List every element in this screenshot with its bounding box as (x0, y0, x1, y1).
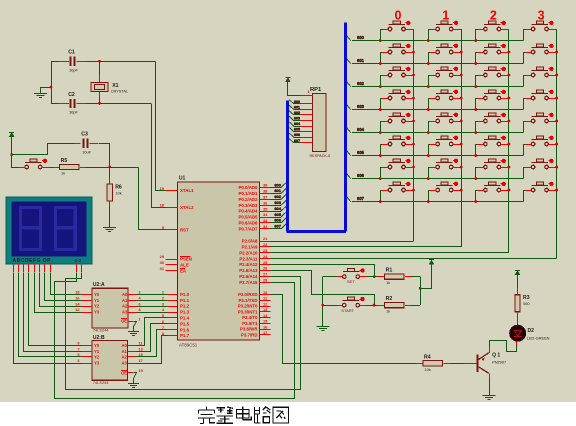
wire button col2 row3 drop (475, 98, 477, 110)
svg-text:U2:A: U2:A (93, 282, 105, 288)
svg-text:RST: RST (180, 228, 189, 233)
keypad button col2 row4 (484, 116, 501, 118)
U1 pin XTAL2 (166, 207, 178, 209)
svg-text:P0.6/AD6: P0.6/AD6 (238, 221, 258, 226)
svg-text:30: 30 (160, 260, 164, 265)
svg-text:607: 607 (357, 196, 365, 201)
crystal X1 (99, 61, 101, 75)
wire SET left (323, 276, 337, 278)
svg-text:P2.0/A8: P2.0/A8 (242, 239, 258, 244)
svg-text:7: 7 (77, 347, 79, 351)
svg-text:A1: A1 (122, 349, 128, 354)
node keypad row1 col0 junction (379, 62, 382, 65)
svg-text:10k: 10k (116, 191, 122, 195)
U1 pin P3.7 (260, 334, 271, 336)
display pins (13, 264, 15, 272)
svg-text:EA: EA (180, 268, 187, 273)
RP1 pin 2 net 600 (300, 103, 312, 105)
U1 pin P0.5 (260, 217, 271, 219)
U1 pin P0.3 (260, 205, 271, 207)
node ground junction (50, 86, 53, 89)
svg-text:601: 601 (294, 105, 300, 109)
node keypad row3 col0 junction (379, 108, 382, 111)
wire keypad column 3 line (556, 29, 558, 259)
U1 pin P1.3 (167, 312, 178, 314)
node keypad column 2 row4 junction (508, 120, 511, 123)
wire R4 to Q1 base (451, 363, 464, 365)
wire button col2 row0 drop (475, 29, 477, 41)
keypad button col2 row0 (484, 24, 501, 26)
U1 pin P2.0 (260, 241, 271, 243)
button START (343, 300, 360, 302)
wire P0.4 to bus, net 604 (271, 211, 282, 213)
svg-text:P0.7/AD7: P0.7/AD7 (238, 226, 258, 231)
svg-text:A0: A0 (122, 292, 128, 297)
keypad button col1 row1 (436, 47, 453, 49)
node keypad column 3 row3 junction (555, 97, 558, 100)
svg-text:603: 603 (274, 200, 281, 205)
svg-text:A2: A2 (122, 304, 128, 309)
resistor R1 (378, 276, 385, 278)
U1 pin P3.0 (260, 294, 271, 296)
svg-text:Y1: Y1 (94, 298, 100, 303)
U1 pin P2.6 (260, 276, 271, 278)
svg-text:P2.2/A10: P2.2/A10 (239, 250, 258, 255)
wire keypad row 0 (352, 40, 524, 42)
resistor pack RP1 (313, 94, 326, 152)
U1 pin P2.2 (260, 252, 271, 254)
U1 pin P1.6 (167, 329, 178, 331)
keypad button col0 row7 (389, 185, 406, 187)
buffer U2:B (92, 340, 128, 380)
svg-text:600: 600 (274, 182, 281, 187)
bus entry keypad row 5 net 605 (347, 151, 351, 156)
svg-text:607: 607 (274, 224, 281, 229)
wire R5 to RST net (86, 167, 139, 169)
power flag VCC LED (517, 273, 519, 278)
U1 pin P1.5 (167, 323, 178, 325)
wire ground stub (40, 87, 51, 89)
U1 pin P0.2 (260, 199, 271, 201)
wire button col1 row2 drop (428, 75, 430, 87)
U2:A pin Y1 (82, 300, 93, 302)
keypad button col0 row2 (389, 70, 406, 72)
svg-text:P0.3/AD3: P0.3/AD3 (238, 203, 258, 208)
U1 pin XTAL1 (166, 190, 178, 192)
wire SET junction to R1 (366, 276, 377, 278)
node keypad column 2 row7 junction (508, 189, 511, 192)
svg-text:A0: A0 (122, 343, 128, 348)
display digit 2 segments (55, 208, 75, 228)
U1 pin P1.2 (167, 306, 178, 308)
U1 pin RST (166, 229, 178, 231)
U1 pin P0.0 (260, 187, 271, 189)
node R5/R6/C3 junction (108, 165, 111, 168)
svg-text:R2: R2 (386, 296, 393, 302)
node keypad row2 col1 junction (427, 85, 430, 88)
U1 pin P1.4 (167, 317, 178, 319)
ground U2:A OE (133, 327, 135, 332)
node keypad row1 col2 junction (474, 62, 477, 65)
wire button col0 row3 drop (380, 98, 382, 110)
svg-text:PN2907: PN2907 (492, 359, 506, 364)
U1 pin P2.5 (260, 270, 271, 272)
wire display segment D to U2A (35, 273, 82, 313)
svg-text:X1: X1 (112, 83, 118, 89)
wire keypad column 0 line (413, 29, 415, 241)
svg-text:604: 604 (357, 127, 365, 132)
node VCC branch (10, 153, 13, 156)
svg-text:ALE: ALE (180, 263, 189, 268)
keypad button col3 row2 (532, 70, 549, 72)
svg-text:3: 3 (77, 359, 79, 363)
svg-text:C2: C2 (68, 92, 75, 98)
svg-text:P1.5: P1.5 (180, 321, 190, 326)
wire display segment A to U2A (51, 273, 82, 295)
U2:A pin Y3 (82, 312, 93, 314)
power flag VCC reset (11, 135, 13, 140)
wire button col1 row0 drop (428, 29, 430, 41)
svg-text:17: 17 (139, 359, 143, 363)
node keypad column 1 row1 junction (460, 51, 463, 54)
svg-text:OE: OE (121, 319, 127, 324)
wire RST to U1 (139, 168, 168, 230)
wire button col1 row7 drop (428, 190, 430, 202)
svg-text:P2.4/A12: P2.4/A12 (239, 262, 258, 267)
svg-text:606: 606 (274, 218, 281, 223)
U1 pin P0.6 (260, 222, 271, 224)
node keypad column 1 row5 junction (460, 143, 463, 146)
wire C3 right to node (90, 143, 98, 145)
wire display digit2 select to P2.6 (66, 273, 301, 390)
wire button col2 row2 drop (475, 75, 477, 87)
node keypad column 3 row7 junction (555, 189, 558, 192)
svg-text:P2.6/A14: P2.6/A14 (239, 274, 258, 279)
reset button (19, 167, 25, 169)
node keypad column 2 row6 junction (508, 166, 511, 169)
svg-text:6: 6 (139, 302, 141, 306)
bus entry keypad row 7 net 607 (347, 197, 351, 202)
svg-text:P2.7/A15: P2.7/A15 (239, 280, 258, 285)
svg-text:Y2: Y2 (94, 304, 100, 309)
svg-text:74LS244: 74LS244 (93, 328, 109, 333)
U1 pin P1.7 (167, 335, 178, 337)
U1 pin P2.1 (260, 246, 271, 248)
svg-text:607: 607 (294, 139, 300, 143)
svg-text:605: 605 (357, 150, 365, 155)
node crystal-bottom junction (98, 102, 101, 105)
svg-text:Y0: Y0 (94, 343, 100, 348)
svg-text:Y0: Y0 (94, 292, 100, 297)
wire Q1 collector to ground (489, 379, 491, 390)
svg-text:P3.0/RXD: P3.0/RXD (238, 292, 258, 297)
svg-text:10k: 10k (425, 368, 431, 372)
wire U2:B Y0 to P1.4 (137, 318, 168, 346)
U1 pin P3.1 (260, 300, 271, 302)
wire display segment G to U2B (19, 273, 82, 357)
svg-text:606: 606 (357, 173, 365, 178)
resistor R5 (54, 167, 60, 169)
node crystal-top junction (98, 60, 101, 63)
node keypad column 3 row5 junction (555, 143, 558, 146)
wire U2:B Y2 to P1.6 (137, 330, 168, 357)
node keypad column 1 row3 junction (460, 97, 463, 100)
svg-text:11: 11 (139, 342, 143, 346)
node keypad row6 col1 junction (427, 177, 430, 180)
wire button col3 row1 drop (523, 52, 525, 64)
keypad button col0 row4 (389, 116, 406, 118)
microcontroller U1 AT89C51 (178, 182, 260, 340)
keypad button col2 row6 (484, 162, 501, 164)
wire button col1 row3 drop (428, 98, 430, 110)
U1 pin P3.5 (260, 323, 271, 325)
LED D2 (516, 341, 518, 346)
svg-text:P2.5/A13: P2.5/A13 (239, 268, 258, 273)
keypad button col3 row3 (532, 93, 549, 95)
node keypad column 1 row4 junction (460, 120, 463, 123)
svg-text:P3.5/T1: P3.5/T1 (242, 321, 258, 326)
svg-text:XTAL1: XTAL1 (180, 188, 194, 193)
keypad button col1 row6 (436, 162, 453, 164)
wire button col2 row7 drop (475, 190, 477, 202)
svg-text:P3.2/INT0: P3.2/INT0 (238, 304, 258, 309)
wire P2.1 to keypad column 1 (271, 246, 462, 248)
display digit 1 segments (21, 208, 41, 228)
RP1 pin 4 net 602 (300, 114, 312, 116)
wire button col3 row6 drop (523, 167, 525, 179)
wire U2:B Y3 to P1.7 (137, 336, 168, 364)
wire P0.1 to bus, net 601 (271, 193, 282, 195)
wire button col0 row7 drop (380, 190, 382, 202)
U1 pin P2.4 (260, 264, 271, 266)
svg-text:560: 560 (523, 302, 529, 306)
wire P0.2 to bus, net 602 (271, 199, 282, 201)
node keypad column 0 row2 junction (412, 74, 415, 77)
svg-text:602: 602 (274, 194, 281, 199)
button SET (343, 271, 360, 273)
svg-text:600: 600 (294, 100, 300, 104)
resistor R4 (416, 363, 423, 365)
wire button col3 row3 drop (523, 98, 525, 110)
wire P2.3 to keypad column 3 (271, 258, 557, 260)
svg-text:604: 604 (274, 206, 281, 211)
svg-text:P3.6/WR: P3.6/WR (240, 327, 258, 332)
node keypad column 1 row2 junction (460, 74, 463, 77)
keypad button col2 row5 (484, 139, 501, 141)
wire keypad row 1 (352, 63, 524, 65)
wire P3.0 to R4 (271, 295, 417, 364)
svg-text:1k: 1k (386, 310, 390, 314)
svg-text:605: 605 (274, 212, 281, 217)
wire button col3 row0 drop (523, 29, 525, 41)
U1 pin P2.3 (260, 258, 271, 260)
wire button col0 row6 drop (380, 167, 382, 179)
resistor R2 (378, 305, 385, 307)
keypad button col0 row3 (389, 93, 406, 95)
wire U2:A OE to ground (134, 322, 137, 327)
svg-text:10: 10 (263, 290, 267, 295)
U2:B pin OE (128, 372, 134, 374)
svg-text:R6: R6 (115, 184, 122, 190)
svg-text:A3: A3 (122, 310, 128, 315)
keypad button col3 row6 (532, 162, 549, 164)
node keypad column 0 row4 junction (412, 120, 415, 123)
ground below R6 (109, 222, 111, 228)
bus entry keypad row 4 net 604 (347, 128, 351, 133)
svg-text:9: 9 (77, 342, 79, 346)
svg-text:10uF: 10uF (82, 151, 91, 155)
wire START left (323, 305, 337, 307)
U1 pin ALE (166, 264, 178, 266)
bus entry keypad row 6 net 606 (347, 174, 351, 179)
wire button col0 row0 drop (380, 29, 382, 41)
wire button col2 row5 drop (475, 144, 477, 156)
keypad button col1 row5 (436, 139, 453, 141)
U2:B pin Y0 (82, 345, 93, 347)
U1 pin EA (166, 270, 178, 272)
bus entry keypad row 3 net 603 (347, 105, 351, 110)
svg-text:P3.1/TXD: P3.1/TXD (238, 298, 257, 303)
svg-text:P0.5/AD5: P0.5/AD5 (238, 215, 258, 220)
svg-text:603: 603 (294, 117, 300, 121)
svg-text:P3.4/T0: P3.4/T0 (242, 315, 258, 320)
U1 pin P2.7 (260, 282, 271, 284)
bus entry keypad row 1 net 601 (347, 59, 351, 64)
svg-text:27: 27 (263, 272, 267, 277)
bus vertical left segment (286, 101, 289, 232)
node keypad column 0 row5 junction (412, 143, 415, 146)
node keypad row2 col2 junction (474, 85, 477, 88)
node keypad column 0 row7 junction (412, 189, 415, 192)
wire button col0 row5 drop (380, 144, 382, 156)
wire display digit1 select to P2.7 (55, 273, 295, 399)
svg-text:PSEN: PSEN (180, 257, 192, 262)
ground below Q1 (489, 389, 491, 395)
bus vertical main segment (344, 22, 347, 231)
U1 pin P3.2 (260, 306, 271, 308)
svg-text:602: 602 (294, 111, 300, 115)
svg-text:600: 600 (357, 35, 365, 40)
svg-text:P0.1/AD1: P0.1/AD1 (238, 191, 258, 196)
keypad button col2 row7 (484, 185, 501, 187)
svg-text:1k: 1k (61, 172, 65, 176)
svg-text:2: 2 (139, 291, 141, 295)
keypad button col3 row5 (532, 139, 549, 141)
ground U2:B OE (133, 378, 135, 383)
node keypad column 1 row6 junction (460, 166, 463, 169)
wire keypad column 1 line (461, 29, 463, 247)
svg-text:30pF: 30pF (69, 69, 78, 73)
svg-text:ABCDEFG DP: ABCDEFG DP (13, 258, 52, 264)
U2:B pin Y3 (82, 363, 93, 365)
wire display segment C to U2A (40, 273, 82, 307)
wire button col2 row1 drop (475, 52, 477, 64)
svg-text:LED-GREEN: LED-GREEN (527, 336, 550, 341)
wire button col3 row5 drop (523, 144, 525, 156)
wire P0.6 to bus, net 606 (271, 222, 282, 224)
keypad button col3 row0 (532, 24, 549, 26)
node keypad row0 col1 junction (427, 39, 430, 42)
wire R2 right (411, 305, 420, 307)
svg-text:P2.3/A11: P2.3/A11 (239, 256, 258, 261)
node keypad row2 col0 junction (379, 85, 382, 88)
wire button col2 row6 drop (475, 167, 477, 179)
wire XTAL2 net (152, 104, 168, 208)
svg-text:5: 5 (77, 353, 79, 357)
svg-text:603: 603 (357, 104, 365, 109)
svg-text:C3: C3 (81, 132, 88, 138)
svg-text:13: 13 (139, 347, 143, 351)
bus entry keypad row 2 net 602 (347, 82, 351, 87)
wire VCC to RP1 pin1 (288, 85, 301, 96)
node keypad row3 col1 junction (427, 108, 430, 111)
wire button col1 row1 drop (428, 52, 430, 64)
U1 pin P3.6 (260, 329, 271, 331)
svg-text:C1: C1 (68, 50, 75, 56)
resistor R3 (515, 295, 520, 312)
keypad button col0 row0 (389, 24, 406, 26)
svg-text:P3.3/INT1: P3.3/INT1 (238, 309, 258, 314)
wire button col1 row5 drop (428, 144, 430, 156)
wire button col0 row4 drop (380, 121, 382, 133)
U1 pin P3.3 (260, 311, 271, 313)
node keypad row6 col0 junction (379, 177, 382, 180)
node keypad row5 col2 junction (474, 154, 477, 157)
svg-text:RP1: RP1 (310, 87, 322, 93)
svg-text:601: 601 (357, 58, 365, 63)
node R1/R2 junction (419, 287, 422, 290)
U2:A pin Y0 (82, 294, 93, 296)
Q1 collector lead (489, 373, 491, 378)
node keypad column 3 row4 junction (555, 120, 558, 123)
capacitor C2 (70, 99, 72, 108)
wire display segment B to U2A (45, 273, 82, 301)
keypad button col1 row0 (436, 24, 453, 26)
wire START junction to R2 (366, 305, 377, 307)
svg-text:A2: A2 (122, 355, 128, 360)
node keypad column 2 row2 junction (508, 74, 511, 77)
U1 pin P1.1 (167, 300, 178, 302)
RP1 pin 7 net 605 (300, 131, 312, 133)
node keypad row7 col1 junction (427, 200, 430, 203)
wire button col2 row4 drop (475, 121, 477, 133)
keypad button col1 row7 (436, 185, 453, 187)
svg-text:R5: R5 (61, 158, 68, 164)
keypad button col2 row1 (484, 47, 501, 49)
svg-text:P1.7: P1.7 (180, 333, 190, 338)
svg-text:A3: A3 (122, 361, 128, 366)
wire left vertical (51, 61, 53, 103)
wire keypad column 2 line (508, 29, 510, 253)
wire keypad row 5 (352, 155, 524, 157)
node keypad row7 col0 junction (379, 200, 382, 203)
node keypad column 3 row2 junction (555, 74, 558, 77)
svg-text:CRYSTAL: CRYSTAL (111, 89, 128, 93)
svg-text:Q 1: Q 1 (492, 352, 500, 358)
wire P2.0 to keypad column 0 (271, 241, 414, 243)
keypad button col2 row2 (484, 70, 501, 72)
wire button col3 row2 drop (523, 75, 525, 87)
wire button col1 row6 drop (428, 167, 430, 179)
wire P2.2 to keypad column 2 (271, 252, 509, 254)
node keypad row4 col2 junction (474, 131, 477, 134)
svg-text:P1.1: P1.1 (180, 298, 190, 303)
RP1 pin 8 net 606 (300, 137, 312, 139)
wire button col3 row7 drop (523, 190, 525, 202)
svg-text:START: START (341, 308, 354, 313)
display LCD1 2-digit 7-seg module (6, 197, 92, 264)
transistor Q1 PN2907 (464, 363, 477, 365)
